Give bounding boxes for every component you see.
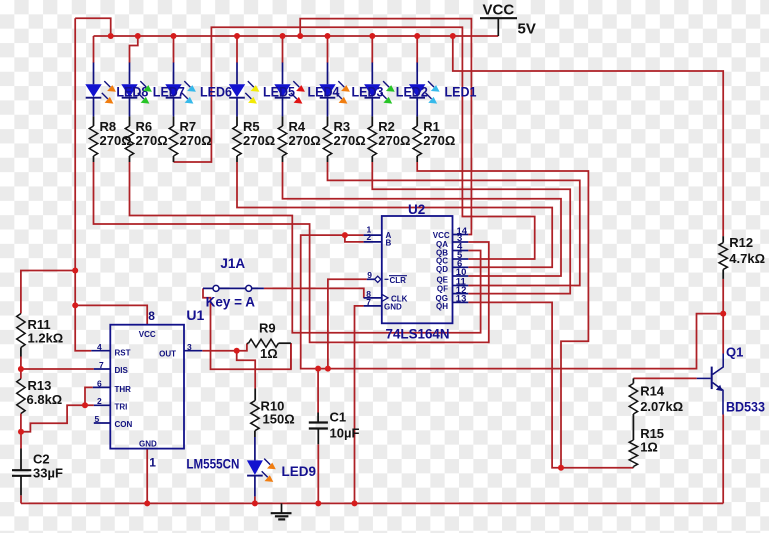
svg-text:LED3: LED3	[352, 85, 384, 100]
svg-text:270Ω: 270Ω	[378, 133, 410, 148]
resistor R15 1&#937;	[629, 440, 637, 468]
wire: R8 bottom to U2 QA	[94, 162, 489, 342]
LED LED2 (diode symbol)	[364, 63, 380, 117]
wire: R12 bottom node to Q1 collector	[722, 279, 724, 354]
U2 pin numbers	[366, 225, 467, 307]
light arrows of LED8	[102, 81, 116, 104]
svg-text:2: 2	[367, 232, 372, 242]
LED column 5 top wire	[282, 36, 284, 63]
label R13	[27, 378, 63, 407]
svg-text:BD533: BD533	[726, 400, 765, 415]
label BD533	[726, 400, 765, 415]
LED9 diode symbol	[247, 437, 263, 496]
label R15	[640, 426, 664, 455]
svg-text:LED5: LED5	[263, 85, 295, 100]
junction dots on rail A	[108, 33, 456, 39]
label R2	[378, 119, 410, 148]
label R10	[261, 399, 295, 427]
U2 right pin stubs	[453, 235, 469, 303]
light arrows of LED5	[245, 81, 259, 104]
junction: R13/C2/TRI	[18, 429, 24, 435]
junction: OUT node	[234, 348, 240, 354]
svg-text:QF: QF	[437, 285, 448, 294]
svg-text:4.7kΩ: 4.7kΩ	[729, 251, 765, 266]
junction: U2 A/B tie	[342, 232, 348, 238]
svg-text:2: 2	[97, 396, 102, 406]
wire W1: VCC down left side to U1 RST	[75, 18, 91, 351]
svg-text:6: 6	[97, 378, 102, 388]
svg-text:QE: QE	[436, 275, 448, 284]
label LED3	[352, 85, 384, 100]
label LED4	[308, 85, 340, 100]
resistor R7 270&#937;	[169, 116, 177, 162]
svg-text:GND: GND	[384, 303, 402, 312]
U1 pin stubs	[91, 351, 202, 423]
svg-text:Q1: Q1	[726, 344, 743, 359]
label R11	[28, 317, 64, 346]
svg-text:R9: R9	[259, 321, 276, 336]
junction: W1/U1 VCC	[72, 302, 78, 308]
resistor R4 270&#937;	[278, 116, 286, 162]
wire: OUT to R10 top	[237, 351, 256, 389]
svg-text:U2: U2	[408, 202, 425, 217]
junction dots on ground rail	[144, 500, 357, 506]
junction: C1 top	[315, 366, 321, 372]
svg-text:R7: R7	[180, 119, 197, 134]
wire: R6 bottom to U2 QB	[130, 162, 481, 333]
LED LED7 (diode symbol)	[121, 63, 137, 117]
label Q1	[726, 344, 743, 359]
wire: U1 TRI to R13/C2 node	[21, 405, 94, 448]
svg-text:R2: R2	[378, 119, 395, 134]
svg-text:R4: R4	[289, 119, 306, 134]
wire: R13 bottom to node	[20, 414, 22, 432]
LED LED3 (diode symbol)	[319, 63, 335, 117]
capacitor C2 33&#181;F	[12, 449, 31, 496]
resistor R14 2.07k&#937;	[629, 383, 637, 440]
label R6	[136, 119, 168, 148]
svg-text:LED2: LED2	[396, 85, 428, 100]
label LED1	[445, 85, 477, 100]
wire: U2 CLR to net	[328, 279, 367, 368]
light arrows of LED3	[336, 81, 350, 104]
resistor R2 270&#937;	[368, 116, 376, 162]
svg-text:LED9: LED9	[282, 464, 317, 479]
junction: QH/R15 node	[558, 465, 564, 471]
wire: C1 bottom to rail	[317, 444, 319, 503]
light arrows of LED9	[262, 459, 276, 482]
svg-text:270Ω: 270Ω	[334, 133, 366, 148]
LED LED4 (diode symbol)	[274, 63, 290, 117]
wire: rail A to R11 branch	[21, 271, 75, 314]
label R4	[289, 119, 321, 148]
wire: R2 bottom to U2 QG	[372, 162, 570, 294]
svg-text:10µF: 10µF	[330, 426, 360, 441]
label R1	[423, 119, 455, 148]
label R14	[640, 384, 683, 414]
junction: R11/R13/DIS	[18, 366, 24, 372]
svg-text:TRI: TRI	[115, 403, 128, 412]
wire: R14 top lead	[632, 378, 634, 383]
svg-text:RST: RST	[115, 349, 131, 358]
svg-text:CLR: CLR	[390, 276, 407, 285]
svg-text:U1: U1	[186, 307, 204, 323]
VCC rail A	[94, 35, 499, 37]
wire: U2 pins A,B tie	[345, 235, 364, 242]
svg-text:R6: R6	[136, 119, 153, 134]
resistor R5 270&#937;	[233, 116, 241, 162]
svg-text:2.07kΩ: 2.07kΩ	[640, 399, 683, 414]
label J1A	[220, 256, 245, 271]
wire: J1A to U2 CLK	[264, 288, 364, 298]
svg-text:GND: GND	[139, 440, 157, 449]
label LM555CN	[186, 456, 239, 472]
LED column 1 top wire	[93, 36, 95, 63]
label LED5	[263, 85, 295, 100]
wire: U1 GND pin to rail	[146, 448, 148, 503]
svg-text:8: 8	[148, 309, 155, 323]
svg-text:LED6: LED6	[200, 85, 232, 100]
wire: rail A to R12 feed	[453, 36, 723, 236]
svg-text:270Ω: 270Ω	[289, 133, 321, 148]
svg-text:LED1: LED1	[445, 85, 477, 100]
LED column 6 top wire	[327, 36, 329, 63]
label R8	[100, 119, 132, 148]
wire: R4 bottom to U2 QE	[283, 162, 562, 276]
LED LED5 (diode symbol)	[229, 63, 245, 117]
wire: Q1 base feed from R14 top	[633, 377, 696, 379]
svg-text:VCC: VCC	[483, 2, 515, 19]
svg-text:J1A: J1A	[220, 256, 245, 271]
svg-text:270Ω: 270Ω	[136, 133, 168, 148]
svg-text:CON: CON	[115, 420, 133, 429]
svg-text:270Ω: 270Ω	[100, 133, 132, 148]
svg-text:QH: QH	[436, 302, 448, 311]
LED column 4 top wire	[236, 36, 238, 63]
LED column 2 top wire with jog	[130, 36, 138, 63]
wire: U1 DIS to R11/R13 junction	[21, 368, 94, 370]
ground symbol	[271, 503, 292, 519]
resistor R9 1&#937;	[247, 339, 291, 347]
wire: R11 bottom / R13 top segment	[20, 357, 22, 379]
svg-text:7: 7	[366, 297, 371, 307]
wire: U2 GND down to ground rail	[355, 306, 364, 504]
svg-text:Key = A: Key = A	[206, 294, 256, 309]
label LED9	[282, 464, 317, 479]
light arrows of LED1	[426, 81, 440, 104]
svg-text:6.8kΩ: 6.8kΩ	[27, 392, 63, 407]
label LED2	[396, 85, 428, 100]
junction: R12 bottom	[720, 311, 726, 317]
svg-text:THR: THR	[115, 385, 132, 394]
svg-text:DIS: DIS	[115, 366, 129, 375]
label Key = A	[206, 294, 256, 309]
resistor R8 270&#937;	[89, 116, 97, 162]
label C1	[330, 410, 360, 441]
LED column 8 top wire	[416, 36, 418, 63]
IC U2 74LS164N body	[382, 216, 453, 323]
transistor Q1 BD533	[697, 354, 724, 415]
label R5	[243, 119, 275, 148]
wire: R3 bottom to U2 QF	[328, 162, 580, 286]
wire: C2 bottom to ground rail	[20, 495, 22, 503]
LED LED8 (diode symbol)	[85, 63, 101, 117]
junction: TRI/THR	[82, 402, 88, 408]
svg-text:LED8: LED8	[116, 85, 148, 100]
svg-text:1.2kΩ: 1.2kΩ	[28, 331, 64, 346]
wire: R1 bottom to QH node	[417, 162, 588, 468]
light arrows of LED2	[381, 81, 395, 104]
resistor R1 270&#937;	[413, 116, 421, 162]
svg-text:5: 5	[95, 414, 100, 424]
wire: U2 QH to node	[468, 302, 633, 467]
wire: C1 top branch	[317, 369, 319, 413]
wire: R9 right lead down	[290, 343, 292, 369]
svg-text:C2: C2	[33, 452, 50, 467]
wire: A/B node down to CLR/C1/R12 net	[301, 235, 724, 369]
wire: R5 bottom to U2 QD	[237, 162, 552, 267]
wire: OUT to R9 left	[237, 343, 247, 350]
svg-text:270Ω: 270Ω	[423, 133, 455, 148]
label R3	[334, 119, 366, 148]
svg-text:VCC: VCC	[139, 330, 156, 339]
svg-text:B: B	[386, 238, 392, 247]
LED column 3 top wire	[173, 36, 175, 63]
wire: U1 THR to TRI	[85, 387, 93, 405]
svg-text:9: 9	[367, 270, 372, 280]
svg-text:R14: R14	[640, 384, 665, 399]
label C2	[33, 452, 63, 481]
label LED8	[116, 85, 148, 100]
svg-text:LED4: LED4	[308, 85, 340, 100]
resistor R6 270&#937;	[125, 116, 133, 162]
svg-text:13: 13	[456, 294, 467, 305]
svg-text:5V: 5V	[518, 21, 536, 38]
label U2	[408, 202, 425, 217]
label R7	[180, 119, 212, 148]
IC U1 LM555CN body	[110, 325, 184, 449]
svg-text:74LS164N: 74LS164N	[386, 326, 450, 342]
svg-text:7: 7	[99, 360, 104, 370]
svg-text:3: 3	[187, 342, 192, 352]
svg-text:C1: C1	[330, 410, 347, 425]
switch J1A	[203, 285, 264, 291]
junction: CLR net	[325, 366, 331, 372]
label R9	[259, 321, 278, 361]
svg-text:R5: R5	[243, 119, 260, 134]
LED column 7 top wire	[371, 36, 373, 63]
svg-text:R1: R1	[423, 119, 440, 134]
svg-text:QD: QD	[436, 265, 448, 274]
svg-text:R12: R12	[729, 235, 753, 250]
light arrows of LED4	[291, 81, 305, 104]
U2 left pin stubs	[364, 235, 388, 306]
VCC power symbol 5V	[480, 2, 536, 38]
junction: W1/R11 branch	[72, 268, 78, 274]
light arrows of LED7	[138, 81, 152, 104]
svg-text:150Ω: 150Ω	[263, 412, 295, 427]
U2 pin names	[384, 231, 450, 312]
resistor R10 150&#937;	[251, 389, 259, 438]
resistor R11 1.2k&#937;	[17, 314, 25, 357]
svg-text:LED7: LED7	[153, 85, 185, 100]
ground rail	[21, 502, 723, 504]
U1 pin numbers	[95, 309, 193, 470]
label 74LS164N	[386, 326, 450, 342]
LED LED6 (diode symbol)	[165, 63, 181, 117]
wire: LED9 cathode to rail	[254, 496, 256, 503]
svg-text:R8: R8	[100, 119, 117, 134]
wire: J1A left to R9/R10 node	[203, 288, 291, 369]
wire: R7 bottom to U2 QC via rail B	[174, 27, 535, 259]
svg-text:4: 4	[97, 342, 102, 352]
wire: U1 OUT node	[202, 350, 236, 352]
resistor R3 270&#937;	[323, 116, 331, 162]
svg-text:270Ω: 270Ω	[243, 133, 275, 148]
svg-text:1Ω: 1Ω	[640, 440, 658, 455]
wire: Q1 emitter down to rail	[722, 415, 724, 504]
resistor R12 4.7k&#937;	[719, 236, 727, 279]
svg-text:270Ω: 270Ω	[180, 133, 212, 148]
svg-text:LM555CN: LM555CN	[186, 456, 239, 472]
svg-text:R13: R13	[28, 378, 52, 393]
capacitor C1 10&#181;F	[309, 413, 328, 445]
svg-text:33µF: 33µF	[33, 466, 63, 481]
U1 pin names	[115, 330, 177, 449]
svg-text:1: 1	[149, 456, 156, 470]
svg-text:OUT: OUT	[159, 350, 176, 359]
label U1	[186, 307, 204, 323]
resistor R13 6.8k&#937;	[17, 379, 25, 414]
svg-text:R3: R3	[334, 119, 351, 134]
wire: rail C (VCC to U2 pin14)	[300, 19, 471, 235]
label LED7	[153, 85, 185, 100]
svg-text:1Ω: 1Ω	[260, 346, 278, 361]
label R12	[729, 235, 765, 266]
LED LED1 (diode symbol)	[409, 63, 425, 117]
light arrows of LED6	[182, 81, 196, 104]
wire: VCC to U1 pin8	[75, 305, 147, 325]
label LED6	[200, 85, 232, 100]
svg-text:VCC: VCC	[433, 231, 450, 240]
wire: VCC jog from W1 to rail A	[75, 18, 111, 36]
